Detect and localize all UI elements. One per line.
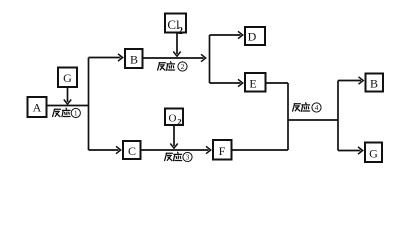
svg-text:A: A (33, 101, 42, 115)
wire junction to B with arrow (89, 54, 123, 61)
label reaction 2 (158, 62, 187, 71)
label reaction 1 (53, 108, 81, 118)
svg-text:2: 2 (181, 62, 185, 71)
box G right (365, 143, 382, 163)
label reaction 4 (293, 103, 322, 113)
svg-text:G: G (63, 71, 72, 85)
svg-text:G: G (369, 147, 378, 161)
junction vertical wire (88, 58, 90, 151)
wire bracket to D with arrow (210, 31, 243, 38)
svg-text:D: D (248, 30, 257, 44)
svg-text:2: 2 (177, 117, 181, 127)
box B left (125, 49, 143, 68)
wire F to mid vertical (232, 149, 289, 151)
box F (213, 140, 232, 160)
wire junction to C with arrow (89, 146, 121, 153)
label reaction 3 (165, 152, 192, 162)
svg-text:C: C (128, 144, 136, 158)
svg-text:2: 2 (178, 26, 183, 37)
svg-text:3: 3 (186, 153, 190, 162)
svg-text:F: F (219, 144, 226, 158)
box O2 reactant (165, 109, 183, 127)
wire A to junction (47, 105, 89, 107)
wire B to DE bracket with arrow (143, 54, 206, 61)
svg-text:4: 4 (315, 103, 319, 112)
box Cl2 reactant (165, 14, 186, 38)
DE bracket vertical wire (209, 35, 211, 83)
box B right (366, 74, 384, 92)
arrow Cl2 down to wire (173, 33, 180, 56)
svg-text:O: O (169, 113, 177, 125)
box D (245, 27, 265, 45)
svg-text:B: B (370, 77, 378, 91)
mid vertical wire (287, 83, 289, 150)
box E (245, 73, 266, 92)
svg-text:B: B (130, 53, 138, 67)
wire bracket to right G with arrow (338, 147, 363, 154)
wire bracket to E with arrow (210, 79, 243, 86)
box A (28, 97, 47, 117)
box G reactant above A (58, 68, 77, 88)
wire C to F with arrow (141, 146, 211, 153)
box C (123, 141, 141, 159)
wire E to mid vertical (266, 82, 289, 84)
arrow O2 down to wire (170, 125, 177, 148)
wire mid to right bracket (288, 119, 338, 121)
right bracket vertical wire (337, 81, 339, 151)
arrow G down to wire (64, 87, 71, 104)
svg-text:1: 1 (74, 109, 78, 118)
svg-text:E: E (249, 77, 256, 91)
wire bracket to right B with arrow (338, 77, 363, 84)
